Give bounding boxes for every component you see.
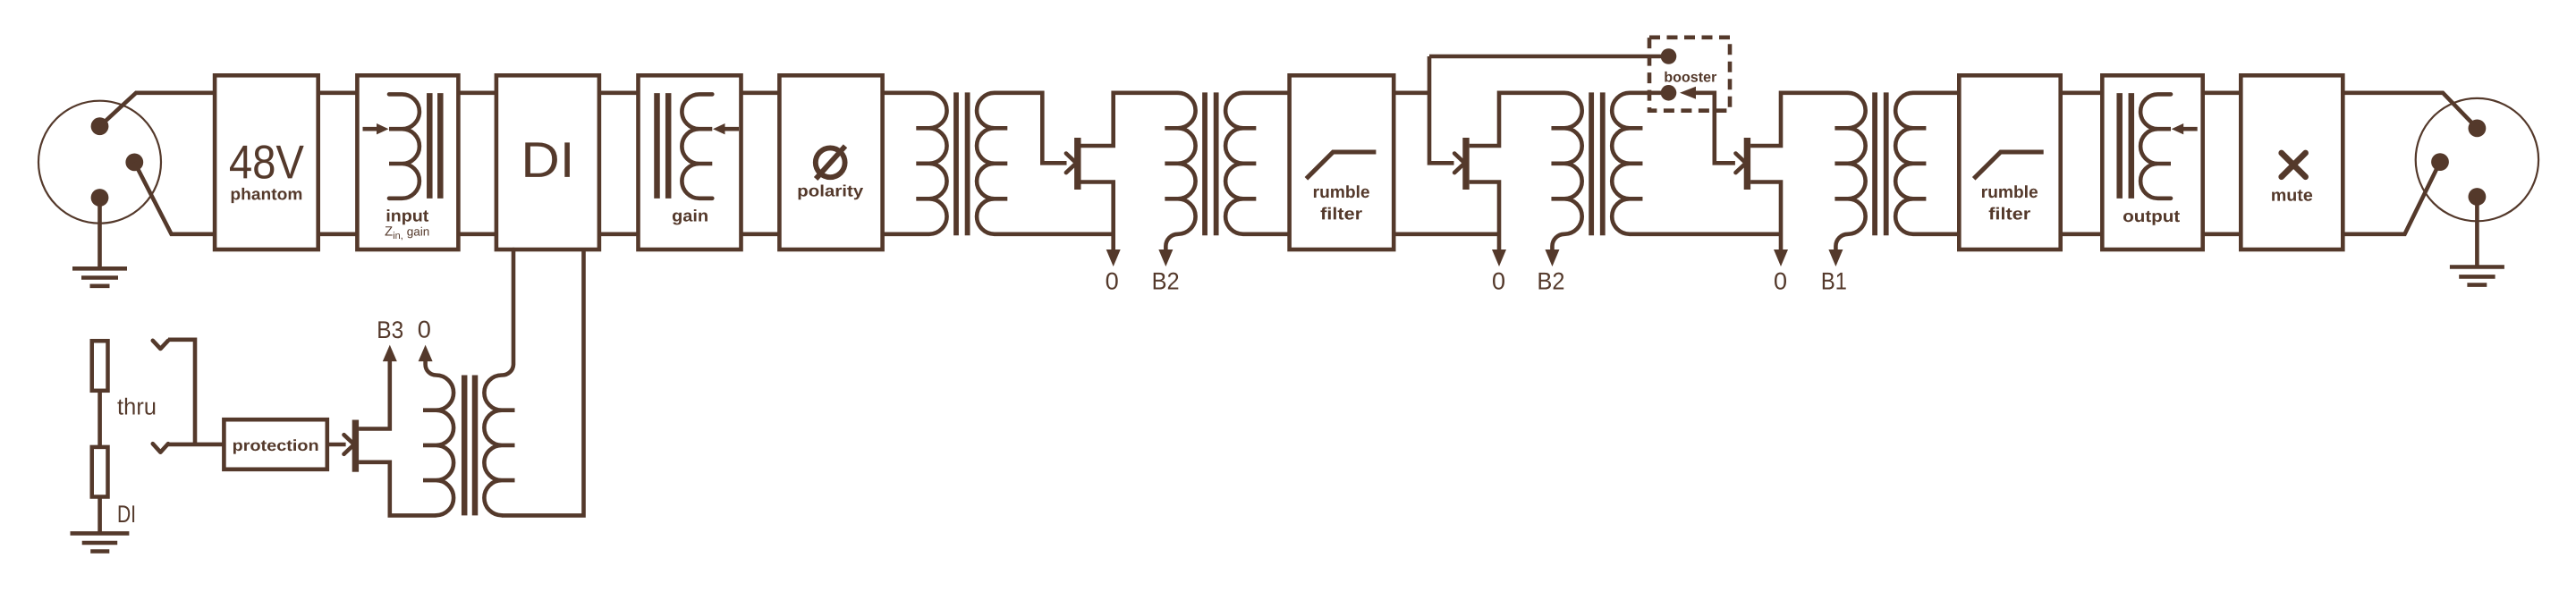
- J2 pin 1: [2469, 188, 2487, 206]
- wire J1 pin2 to 48V box (top): [100, 93, 216, 126]
- label 0: [1493, 273, 1504, 290]
- transformer T2 secondary: [1225, 93, 1256, 234]
- label gain: [673, 209, 708, 224]
- label booster: [1665, 72, 1716, 82]
- transformer T3 primary: [1551, 93, 1581, 250]
- transformer T3 secondary: [1612, 93, 1642, 234]
- transformer T2 core: [1202, 92, 1207, 235]
- label rumble: [1314, 185, 1369, 198]
- wire J1 pin3 to 48V box (bottom): [134, 162, 215, 233]
- J2 pin 2: [2469, 120, 2487, 138]
- output transformer core: [2116, 93, 2123, 199]
- transformer T1 secondary: [977, 93, 1007, 234]
- label DI: [119, 505, 134, 522]
- input adjust arrow: [363, 127, 379, 131]
- wire booster to Q3 gate: [1696, 93, 1735, 164]
- wire tip contact to ring branch: [168, 340, 195, 444]
- transformer T2 primary: [1165, 93, 1195, 250]
- jack switch contact (ring): [153, 444, 168, 452]
- wire T4 secondary to rumble filter 2 (bottom): [1913, 232, 1959, 236]
- wire gain to polarity box (bottom): [741, 232, 780, 236]
- label 0: [1775, 273, 1786, 290]
- transistor Q4 bar: [352, 420, 359, 472]
- highpass icon: [1974, 152, 2044, 179]
- label 48V: [230, 145, 304, 179]
- wire Q3 drain to T4 primary: [1750, 93, 1848, 146]
- transformer T4 primary: [1835, 93, 1865, 250]
- wire booster feed line: [1429, 55, 1669, 59]
- wire T4 secondary to rumble filter 2 (top): [1913, 91, 1959, 96]
- transistor Q1 bar: [1074, 138, 1080, 190]
- wire T1 secondary bottom to Q1 source node: [995, 232, 1114, 236]
- wire DI to gain box (top): [599, 91, 639, 96]
- label polarity: [799, 185, 864, 200]
- transistor Q4 gate arrow: [344, 435, 354, 454]
- wire T2 secondary to rumble filter (bottom): [1243, 232, 1290, 236]
- wire Q2 drain to T3 primary: [1470, 93, 1564, 146]
- wire R2 to ground: [97, 497, 102, 532]
- label input: [387, 209, 428, 224]
- wire T1 secondary to Q1 gate: [995, 93, 1067, 164]
- block 48V phantom: [215, 75, 318, 249]
- arrow to B1: [1828, 249, 1843, 266]
- wire rumble filter to Q2 gate node: [1394, 91, 1429, 96]
- label DI: [525, 142, 570, 177]
- J1 pin 3: [125, 154, 143, 172]
- transformer T1 core: [953, 92, 959, 235]
- wire gain to polarity box (top): [741, 91, 780, 96]
- transformer T5 core: [462, 376, 468, 516]
- transformer T1 primary: [916, 93, 946, 234]
- wire mute to XLR output (bottom): [2343, 162, 2440, 234]
- block rumble filter 2: [1959, 75, 2060, 249]
- arrow to 0 (T5 primary top): [419, 345, 433, 362]
- arrow to 0: [1492, 249, 1506, 266]
- arrow to B2: [1545, 249, 1559, 266]
- output transformer coil L3: [2140, 94, 2171, 198]
- wire Q4 source to T5 primary: [359, 462, 436, 516]
- wire polarity to T1 primary (bottom): [883, 232, 929, 236]
- transformer T3 core: [1589, 92, 1594, 235]
- wire R1 to R2: [97, 391, 102, 447]
- input transformer coil L1: [389, 94, 419, 198]
- wire Q1 source to 0 rail: [1081, 182, 1114, 252]
- block gain: [639, 75, 741, 249]
- output adjust arrow: [2182, 127, 2198, 131]
- jack switch contact (tip): [153, 341, 168, 349]
- arrow to B2: [1158, 249, 1173, 266]
- mute X symbol: [2282, 153, 2306, 177]
- wire Q1 drain to T2 primary: [1081, 93, 1178, 146]
- wire T3 secondary to booster input: [1630, 91, 1669, 96]
- block mute: [2241, 75, 2343, 249]
- transistor Q2 bar: [1462, 138, 1469, 190]
- label rumble: [1982, 185, 2038, 198]
- transistor Q2 gate arrow: [1454, 154, 1464, 173]
- booster output arrow: [1680, 87, 1696, 99]
- wire input to DI box (bottom): [458, 232, 496, 236]
- label filter: [1989, 207, 2030, 220]
- wire Q2 source to 0 rail: [1470, 182, 1499, 252]
- arrow to B3: [383, 345, 397, 362]
- label B3: [378, 321, 402, 338]
- XLR input connector J1: [38, 101, 161, 224]
- arrow to 0: [1774, 249, 1788, 266]
- wire rumble filter 2 to output box (bottom): [2061, 232, 2103, 236]
- booster dashed box: [1649, 38, 1730, 111]
- wire 48V to input box (top): [318, 91, 358, 96]
- polarity symbol: [816, 148, 845, 177]
- wire DI to gain box (bottom): [599, 232, 639, 236]
- label filter: [1321, 207, 1362, 220]
- transistor Q1 gate arrow: [1066, 154, 1076, 173]
- wire polarity to T1 primary (top): [883, 91, 929, 96]
- block protection: [224, 419, 326, 469]
- transistor Q3 bar: [1744, 138, 1750, 190]
- label Zin gain: [386, 226, 429, 240]
- label thru: [117, 398, 155, 415]
- resistor R2: [92, 447, 108, 497]
- wire Q4 drain to B3 rail: [359, 361, 390, 429]
- label 0: [1106, 273, 1118, 290]
- ground at thru/DI: [71, 531, 130, 536]
- J1 pin 2: [91, 117, 109, 135]
- wire ring contact to protection: [168, 443, 224, 447]
- arrow to 0: [1106, 249, 1121, 266]
- wire protection to Q4 gate: [327, 443, 346, 447]
- label B1: [1823, 273, 1846, 290]
- wire rumble filter to Q2 source node (bottom): [1394, 232, 1499, 236]
- ground at input XLR: [97, 198, 102, 266]
- wire input to DI box (top): [458, 91, 496, 96]
- transistor Q3 gate arrow: [1736, 154, 1746, 173]
- block DI: [496, 75, 599, 249]
- booster node dot (bottom): [1661, 85, 1677, 101]
- J1 pin 1: [91, 189, 109, 207]
- wire output to mute box (top): [2203, 91, 2241, 96]
- input transformer core: [427, 93, 433, 199]
- label B2: [1154, 273, 1179, 290]
- block polarity: [779, 75, 882, 249]
- label B2: [1539, 273, 1564, 290]
- gain transformer core: [654, 93, 660, 199]
- label mute: [2272, 190, 2312, 201]
- wire T2 secondary to rumble filter (top): [1243, 91, 1290, 96]
- gain adjust arrow: [724, 127, 740, 131]
- J2 pin 3: [2431, 153, 2449, 171]
- block rumble filter 1: [1290, 75, 1394, 249]
- wire Q3 source to 0 rail: [1750, 182, 1781, 252]
- XLR output connector J2: [2416, 98, 2538, 221]
- wire 48V to input box (bottom): [318, 232, 358, 236]
- transformer T5 secondary: [484, 249, 514, 515]
- transformer T5 primary: [423, 361, 453, 516]
- ground at output XLR: [2475, 197, 2479, 266]
- wire rumble filter 2 to output box (top): [2061, 91, 2103, 96]
- wire node to booster (up) and Q2 gate (down): [1429, 56, 1454, 163]
- booster node dot (top): [1661, 48, 1677, 64]
- highpass icon: [1306, 152, 1376, 179]
- transformer T4 secondary: [1895, 93, 1926, 234]
- wire T3 secondary to Q3 source node (bottom): [1630, 232, 1781, 236]
- wire mute to XLR output (top): [2343, 93, 2477, 129]
- block input: [357, 75, 458, 249]
- gain transformer coil L2: [682, 94, 712, 198]
- label output: [2123, 211, 2180, 225]
- wire output to mute box (bottom): [2203, 232, 2241, 236]
- wire T5 secondary bottom to DI box: [502, 249, 584, 515]
- label phantom: [232, 188, 302, 203]
- transformer T4 core: [1872, 92, 1877, 235]
- label protection: [233, 439, 318, 453]
- block output: [2102, 75, 2202, 249]
- label 0: [419, 321, 430, 338]
- resistor R1 (thru): [92, 341, 108, 391]
